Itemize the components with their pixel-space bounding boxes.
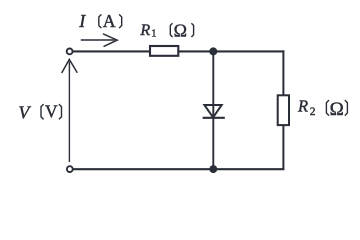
- svg-text:R: R: [139, 22, 150, 39]
- bracket pair around Omega (R2): [326, 100, 347, 116]
- svg-text:Ω: Ω: [330, 99, 344, 120]
- bracket pair around A: [99, 14, 122, 28]
- terminal top-left (open circle): [67, 49, 73, 55]
- node junction dot bottom: [209, 165, 217, 173]
- wire: top horizontal from left terminal to top-right corner: [73, 50, 285, 52]
- svg-text:2: 2: [310, 106, 316, 118]
- diode D1 cathode bar: [203, 117, 225, 119]
- current arrow I (head): [103, 34, 117, 47]
- voltage arrow V (shaft): [68, 62, 70, 163]
- current arrow I (shaft): [81, 39, 115, 41]
- svg-text:A: A: [103, 11, 116, 31]
- wire: right vertical branch: [282, 50, 284, 169]
- wire: bottom horizontal from left terminal to bottom-right corner: [73, 168, 285, 170]
- svg-text:I: I: [78, 11, 86, 31]
- node junction dot top: [209, 47, 217, 55]
- diode D1 triangle: [204, 105, 221, 117]
- svg-text:V: V: [18, 102, 31, 122]
- bracket pair around Omega (R1): [170, 23, 193, 37]
- voltage arrow V (head): [62, 59, 78, 73]
- svg-text:V: V: [45, 102, 58, 122]
- svg-text:1: 1: [151, 29, 156, 40]
- bracket pair around V unit: [41, 104, 62, 119]
- wire: middle vertical branch (diode branch): [212, 51, 214, 169]
- terminal bottom-left (open circle): [67, 166, 73, 172]
- svg-text:Ω: Ω: [174, 20, 187, 40]
- svg-text:R: R: [297, 97, 308, 116]
- resistor R2 (box): [278, 95, 289, 125]
- resistor R1 (box): [150, 46, 178, 56]
